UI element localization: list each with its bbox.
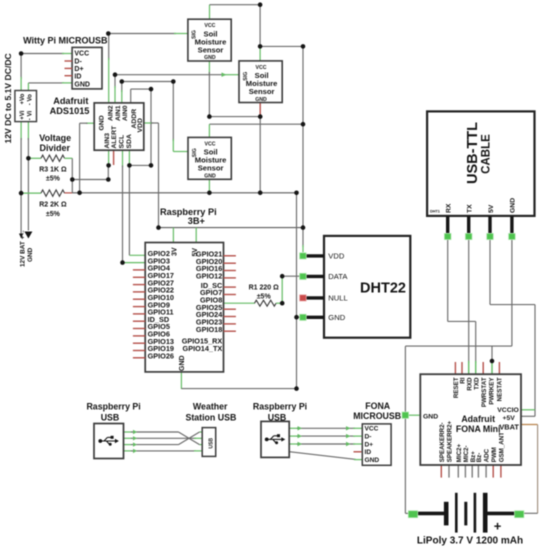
svg-text:GND: GND xyxy=(328,313,345,322)
svg-text:FONA Mini: FONA Mini xyxy=(456,424,501,434)
svg-text:USB: USB xyxy=(101,413,120,423)
svg-text:ID: ID xyxy=(74,74,81,81)
svg-text:DATA: DATA xyxy=(328,272,348,281)
svg-text:SIG: SIG xyxy=(192,148,198,157)
svg-text:Raspberry Pi: Raspberry Pi xyxy=(86,401,140,411)
svg-text:FONA: FONA xyxy=(365,401,391,411)
svg-text:GND: GND xyxy=(204,55,216,61)
svg-text:Raspberry Pi: Raspberry Pi xyxy=(253,401,307,411)
svg-text:AIN1: AIN1 xyxy=(115,105,122,121)
svg-text:Witty Pi MICROUSB: Witty Pi MICROUSB xyxy=(23,36,108,46)
svg-text:GND: GND xyxy=(98,115,105,130)
svg-text:GND: GND xyxy=(179,355,186,371)
svg-text:RI: RI xyxy=(460,377,467,383)
svg-text:Bz-: Bz- xyxy=(476,453,483,463)
svg-text:MIC2+: MIC2+ xyxy=(456,444,463,463)
svg-text:VCC: VCC xyxy=(365,426,379,433)
svg-text:R1 220 Ω: R1 220 Ω xyxy=(249,285,280,292)
svg-text:GND: GND xyxy=(365,457,380,464)
svg-text:GPIO12: GPIO12 xyxy=(196,272,222,281)
svg-text:TX: TX xyxy=(467,204,474,213)
svg-text:GSM_ANT: GSM_ANT xyxy=(499,432,506,462)
svg-text:+5V: +5V xyxy=(503,415,516,422)
svg-text:SIG: SIG xyxy=(192,30,198,39)
svg-text:+Vo: +Vo xyxy=(19,93,26,104)
svg-text:ALERT: ALERT xyxy=(111,125,118,149)
svg-text:VDD: VDD xyxy=(328,252,345,261)
svg-text:SIG: SIG xyxy=(243,72,249,81)
svg-text:Voltage: Voltage xyxy=(39,133,71,143)
svg-text:CABLE: CABLE xyxy=(481,134,493,174)
svg-text:ADC: ADC xyxy=(484,448,491,462)
svg-text:ID: ID xyxy=(365,449,372,456)
svg-text:USB: USB xyxy=(208,438,214,449)
svg-text:+Vi: +Vi xyxy=(19,110,26,120)
svg-text:LiPoly 3.7 V 1200 mAh: LiPoly 3.7 V 1200 mAh xyxy=(417,535,523,546)
svg-text:+: + xyxy=(494,519,502,534)
svg-text:RX: RX xyxy=(446,203,453,213)
svg-text:±5%: ±5% xyxy=(46,176,61,183)
svg-text:MICROUSB: MICROUSB xyxy=(353,411,401,421)
svg-text:5V: 5V xyxy=(192,248,199,257)
svg-text:GPIO14_TX: GPIO14_TX xyxy=(183,344,223,353)
svg-text:Sensor: Sensor xyxy=(198,45,224,54)
svg-text:R3 1K Ω: R3 1K Ω xyxy=(39,166,67,173)
svg-text:NESTAT: NESTAT xyxy=(497,377,504,401)
svg-text:SPEAKERR2-: SPEAKERR2- xyxy=(439,422,446,462)
svg-text:Weather: Weather xyxy=(193,401,228,411)
svg-text:GND: GND xyxy=(510,198,517,213)
svg-text:GPIO18: GPIO18 xyxy=(196,325,222,334)
svg-text:3B+: 3B+ xyxy=(188,216,205,226)
svg-text:GND: GND xyxy=(204,173,216,179)
svg-text:D+: D+ xyxy=(74,66,83,73)
svg-text:Station USB: Station USB xyxy=(185,413,236,423)
svg-text:PWRKEY: PWRKEY xyxy=(489,377,496,405)
svg-text:VBAT: VBAT xyxy=(499,423,519,432)
svg-text:NULL: NULL xyxy=(328,294,347,303)
svg-text:5V: 5V xyxy=(488,204,495,213)
svg-text:- Vi: - Vi xyxy=(27,111,34,121)
svg-text:VCC: VCC xyxy=(256,65,267,71)
svg-text:SDA: SDA xyxy=(126,134,133,148)
svg-text:AIN2: AIN2 xyxy=(108,105,115,121)
svg-text:D-: D- xyxy=(74,58,82,65)
svg-text:VCCIO: VCCIO xyxy=(497,407,519,414)
svg-text:TXD: TXD xyxy=(474,377,481,390)
svg-text:DHT22: DHT22 xyxy=(360,281,406,297)
svg-text:R2 2K Ω: R2 2K Ω xyxy=(39,202,67,209)
svg-text:Divider: Divider xyxy=(40,143,71,153)
svg-text:AIN0: AIN0 xyxy=(122,105,129,121)
svg-text:Sensor: Sensor xyxy=(249,87,275,96)
svg-text:12V DC to 5.1V DC/DC: 12V DC to 5.1V DC/DC xyxy=(3,53,13,143)
svg-text:Adafruit: Adafruit xyxy=(461,414,495,424)
svg-text:DHT1: DHT1 xyxy=(430,210,440,214)
svg-text:- Vo: - Vo xyxy=(27,94,34,105)
svg-text:±5%: ±5% xyxy=(257,293,272,300)
svg-text:GPIO26: GPIO26 xyxy=(148,352,174,361)
svg-text:±5%: ±5% xyxy=(46,211,61,218)
svg-text:Adafruit: Adafruit xyxy=(53,96,88,106)
svg-text:VCC: VCC xyxy=(205,141,216,147)
svg-text:GND: GND xyxy=(74,82,90,89)
svg-text:GND: GND xyxy=(27,247,34,262)
svg-text:GND: GND xyxy=(255,97,267,103)
svg-text:VCC: VCC xyxy=(204,23,215,29)
svg-text:AIN3: AIN3 xyxy=(104,133,111,149)
svg-text:PWRSTAT: PWRSTAT xyxy=(481,377,488,407)
svg-text:12V BAT +→: 12V BAT +→ xyxy=(19,229,26,267)
svg-text:D-: D- xyxy=(365,434,372,441)
svg-text:GND: GND xyxy=(423,413,438,420)
svg-text:VDD: VDD xyxy=(137,118,144,132)
svg-text:D+: D+ xyxy=(365,441,374,448)
svg-text:SCL: SCL xyxy=(118,135,125,149)
svg-text:SPEAKERR2+: SPEAKERR2+ xyxy=(447,420,454,462)
svg-text:PWM: PWM xyxy=(491,447,498,462)
svg-text:VCC: VCC xyxy=(74,51,89,58)
svg-text:ADS1015: ADS1015 xyxy=(50,106,90,116)
svg-text:Sensor: Sensor xyxy=(198,164,224,173)
svg-text:USB: USB xyxy=(268,413,287,423)
svg-text:USB-TTL: USB-TTL xyxy=(465,122,481,184)
svg-text:3V: 3V xyxy=(171,247,178,256)
